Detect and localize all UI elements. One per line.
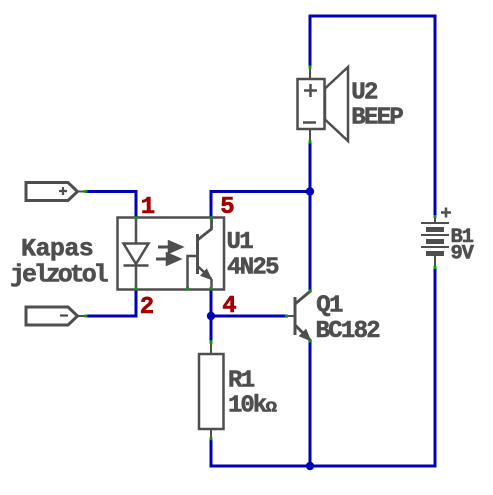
wire R1 bottom	[210, 440, 213, 466]
pin dot Q1 base	[285, 315, 288, 318]
wire pin5 horizontal	[211, 190, 310, 193]
wire junction to Q1 collector	[309, 192, 312, 291]
wire minus connector to pin2	[87, 290, 136, 316]
transistor Q1	[287, 291, 311, 341]
wire plus connector to pin1	[89, 192, 136, 218]
svg-text:BC182: BC182	[316, 318, 380, 345]
wire right vertical lower	[434, 268, 437, 466]
pin dot Q1 emitter	[309, 340, 312, 343]
pin dot U1 pin 4	[210, 287, 213, 290]
svg-text:1: 1	[141, 194, 155, 221]
label U1 4N25	[227, 229, 280, 282]
phototransistor of U1	[188, 218, 212, 289]
optocoupler U1 body	[118, 218, 225, 290]
svg-text:5: 5	[220, 194, 234, 221]
svg-text:BEEP: BEEP	[351, 105, 403, 132]
label Kapas jelzotol	[10, 235, 108, 290]
label R1 10kohm	[228, 368, 277, 420]
svg-text:U1: U1	[227, 229, 254, 256]
connector + (plus input flag)	[26, 183, 87, 201]
svg-text:jelzotol: jelzotol	[10, 261, 108, 290]
wire right vertical upper	[434, 16, 437, 215]
svg-text:10k: 10k	[228, 393, 267, 420]
wire speaker bottom to junction	[309, 143, 312, 192]
pin dot U1 pin 6 base	[186, 287, 189, 290]
junction emitter/bottom	[306, 462, 314, 470]
wire pin4 to R1	[210, 290, 213, 342]
wire pin5 vertical	[210, 192, 213, 218]
junction speaker/pin5/collector	[306, 187, 314, 195]
pin dot U2 minus	[309, 141, 312, 144]
pin dot connector + tip	[85, 190, 88, 193]
svg-text:2: 2	[140, 294, 154, 321]
svg-text:9V: 9V	[451, 243, 475, 266]
resistor R1	[199, 342, 224, 440]
pin dot B1 plus	[434, 215, 437, 218]
pin dot Q1 collector	[309, 289, 312, 292]
wire bottom horizontal	[211, 465, 435, 468]
pin dot U2 plus	[309, 66, 312, 69]
svg-text:Q1: Q1	[316, 293, 343, 320]
svg-text:U2: U2	[351, 80, 377, 107]
wire speaker top	[309, 16, 312, 66]
pin dot B1 minus	[434, 266, 437, 269]
speaker U2	[298, 67, 349, 142]
svg-text:4N25: 4N25	[227, 255, 279, 282]
wire top horizontal	[310, 15, 435, 18]
pin dot U1 pin 5	[210, 217, 213, 220]
junction pin4/base	[207, 312, 215, 320]
battery B1	[421, 208, 451, 268]
pin dot U1 pin 2	[135, 287, 138, 290]
wire Q1 base	[211, 315, 286, 318]
pin dot connector - tip	[85, 315, 88, 318]
svg-text:Kapas: Kapas	[21, 235, 93, 264]
label U2 BEEP	[351, 80, 403, 132]
pin dot R1 bottom	[210, 437, 213, 440]
svg-text:Ω: Ω	[266, 401, 278, 417]
light arrows of U1	[156, 242, 182, 265]
svg-text:4: 4	[222, 293, 236, 320]
svg-text:R1: R1	[228, 368, 255, 395]
wire Q1 emitter down	[309, 341, 312, 466]
label B1 9V	[451, 226, 475, 266]
label Q1 BC182	[316, 293, 380, 346]
pin dot R1 top	[210, 340, 213, 343]
connector - (minus input flag)	[26, 307, 87, 325]
pin dot U1 pin 1	[135, 217, 138, 220]
diode LED of U1	[124, 218, 149, 289]
